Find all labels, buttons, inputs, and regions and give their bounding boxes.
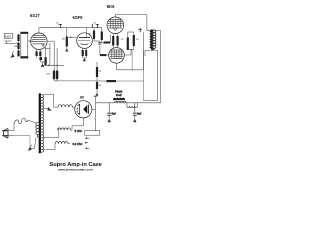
svg-text:.5M: .5M [29,41,33,43]
svg-text:8mf: 8mf [137,113,141,116]
svg-text:Coil: Coil [116,93,122,97]
svg-text:6K6: 6K6 [107,4,115,9]
svg-text:1M: 1M [62,39,65,41]
svg-text:8mf: 8mf [47,74,51,76]
svg-text:6.3 VAC: 6.3 VAC [73,142,83,146]
svg-text:80: 80 [80,96,84,100]
svg-text:8mf: 8mf [112,113,116,116]
svg-text:5 VAC: 5 VAC [75,129,83,133]
svg-text:6SJ7: 6SJ7 [30,13,40,18]
svg-text:6SF5: 6SF5 [73,15,84,20]
svg-text:.5M: .5M [14,46,18,48]
svg-text:www.prowessamps.com: www.prowessamps.com [57,167,93,171]
svg-text:INST: INST [5,34,11,38]
